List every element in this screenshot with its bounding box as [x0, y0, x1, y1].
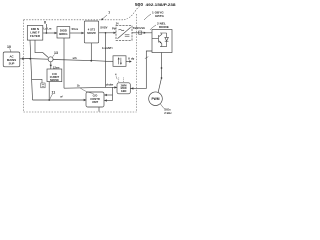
- wire box C bottom to bus: [90, 43, 92, 61]
- svg-text:GEN: GEN: [121, 90, 127, 93]
- svg-text:2 kHz: 2 kHz: [164, 111, 172, 115]
- wire B bottom through bus down: [63, 38, 65, 88]
- wire Q1 to PWM circle: [158, 53, 161, 93]
- wire B to C: [70, 32, 84, 34]
- svg-text:1b: 1b: [77, 85, 80, 88]
- svg-text:DIODE: DIODE: [159, 25, 169, 29]
- svg-text:11: 11: [52, 91, 56, 95]
- svg-text:500: 500: [135, 2, 143, 8]
- inline component on wire: [139, 31, 142, 34]
- stub up with label 8: [45, 24, 47, 33]
- wire box A bottom left long: [30, 40, 33, 100]
- box B rectifier: [57, 27, 70, 38]
- svg-text:UNIT: UNIT: [92, 100, 99, 104]
- svg-text:13: 13: [54, 51, 58, 55]
- svg-text:u/h: u/h: [73, 56, 77, 60]
- branch to box E right side arrows: [112, 87, 114, 100]
- svg-text:wʹ: wʹ: [59, 95, 63, 99]
- bus wire horizontal: [25, 59, 106, 62]
- svg-text:7: 7: [108, 11, 110, 15]
- box A EMI filter: [27, 26, 43, 41]
- svg-text:SVSV: SVSV: [100, 25, 107, 29]
- node circle 13: [48, 57, 53, 62]
- svg-text:FILTER: FILTER: [30, 34, 41, 38]
- svg-text:SVxx: SVxx: [72, 27, 79, 31]
- AC source box 10: [3, 52, 20, 67]
- dashed enclosure border: [24, 7, 140, 113]
- callout 1 label: [152, 11, 165, 19]
- PWM generator circle: [149, 92, 163, 106]
- aux component 1e: [41, 83, 45, 88]
- svg-text:MOVR: MOVR: [87, 31, 95, 35]
- wire C to converter: [99, 32, 116, 34]
- AC/DC converter U1: [116, 26, 132, 41]
- svg-text:SUP: SUP: [9, 61, 15, 65]
- vertical feed line x105: [105, 33, 107, 88]
- wire node to box D with arrow: [50, 62, 52, 69]
- svg-text:b wxNT>: b wxNT>: [102, 46, 114, 50]
- loop bottom wire to driver: [64, 86, 117, 89]
- svg-text:GBTG: GBTG: [155, 14, 165, 18]
- svg-text:10: 10: [7, 45, 11, 49]
- callout 2 label: [157, 22, 169, 30]
- wire converter to switch box: [132, 32, 152, 34]
- svg-text:uhulw: uhulw: [106, 83, 114, 87]
- node junction on wire A-B: [46, 32, 48, 34]
- svg-text:SVSVxVA: SVSVxVA: [133, 26, 145, 30]
- wire AC source to enclosure: [20, 58, 25, 60]
- wire box D bottom: [48, 82, 50, 100]
- junction node on wire: [105, 32, 107, 34]
- diode D1: [166, 33, 168, 47]
- bottom wire to box E: [33, 99, 87, 101]
- current sensor box with arrows: [113, 56, 126, 67]
- wire box E bottom stub: [98, 107, 100, 112]
- box D current sense: [47, 69, 62, 82]
- junction dot bus-left: [29, 58, 31, 60]
- svg-text:BRDG: BRDG: [59, 32, 67, 36]
- wire A to B: [43, 32, 57, 34]
- wire into sensor box: [106, 60, 114, 62]
- svg-text:PWM: PWM: [151, 97, 159, 101]
- svg-text:Lc Lm: Lc Lm: [44, 26, 53, 30]
- box F driver: [117, 83, 130, 94]
- svg-text:8: 8: [44, 21, 46, 25]
- svg-text:U dy: U dy: [128, 56, 135, 60]
- branch wire to aux component: [32, 79, 42, 83]
- box C PFC: [84, 21, 98, 43]
- dotted stubs into box F top: [119, 78, 124, 83]
- wire box A bottom jog to node: [35, 40, 48, 57]
- box E control unit: [86, 92, 104, 107]
- transistor Q1 box: [152, 30, 172, 53]
- svg-text:492.158/P.238: 492.158/P.238: [146, 3, 176, 7]
- svg-text:SENSE: SENSE: [50, 78, 59, 82]
- gate drive wire from box F to Q1: [130, 51, 152, 88]
- transistor symbol: [152, 33, 168, 47]
- output arrow Udy: [126, 61, 131, 63]
- label SIG 2kHz: [161, 104, 165, 109]
